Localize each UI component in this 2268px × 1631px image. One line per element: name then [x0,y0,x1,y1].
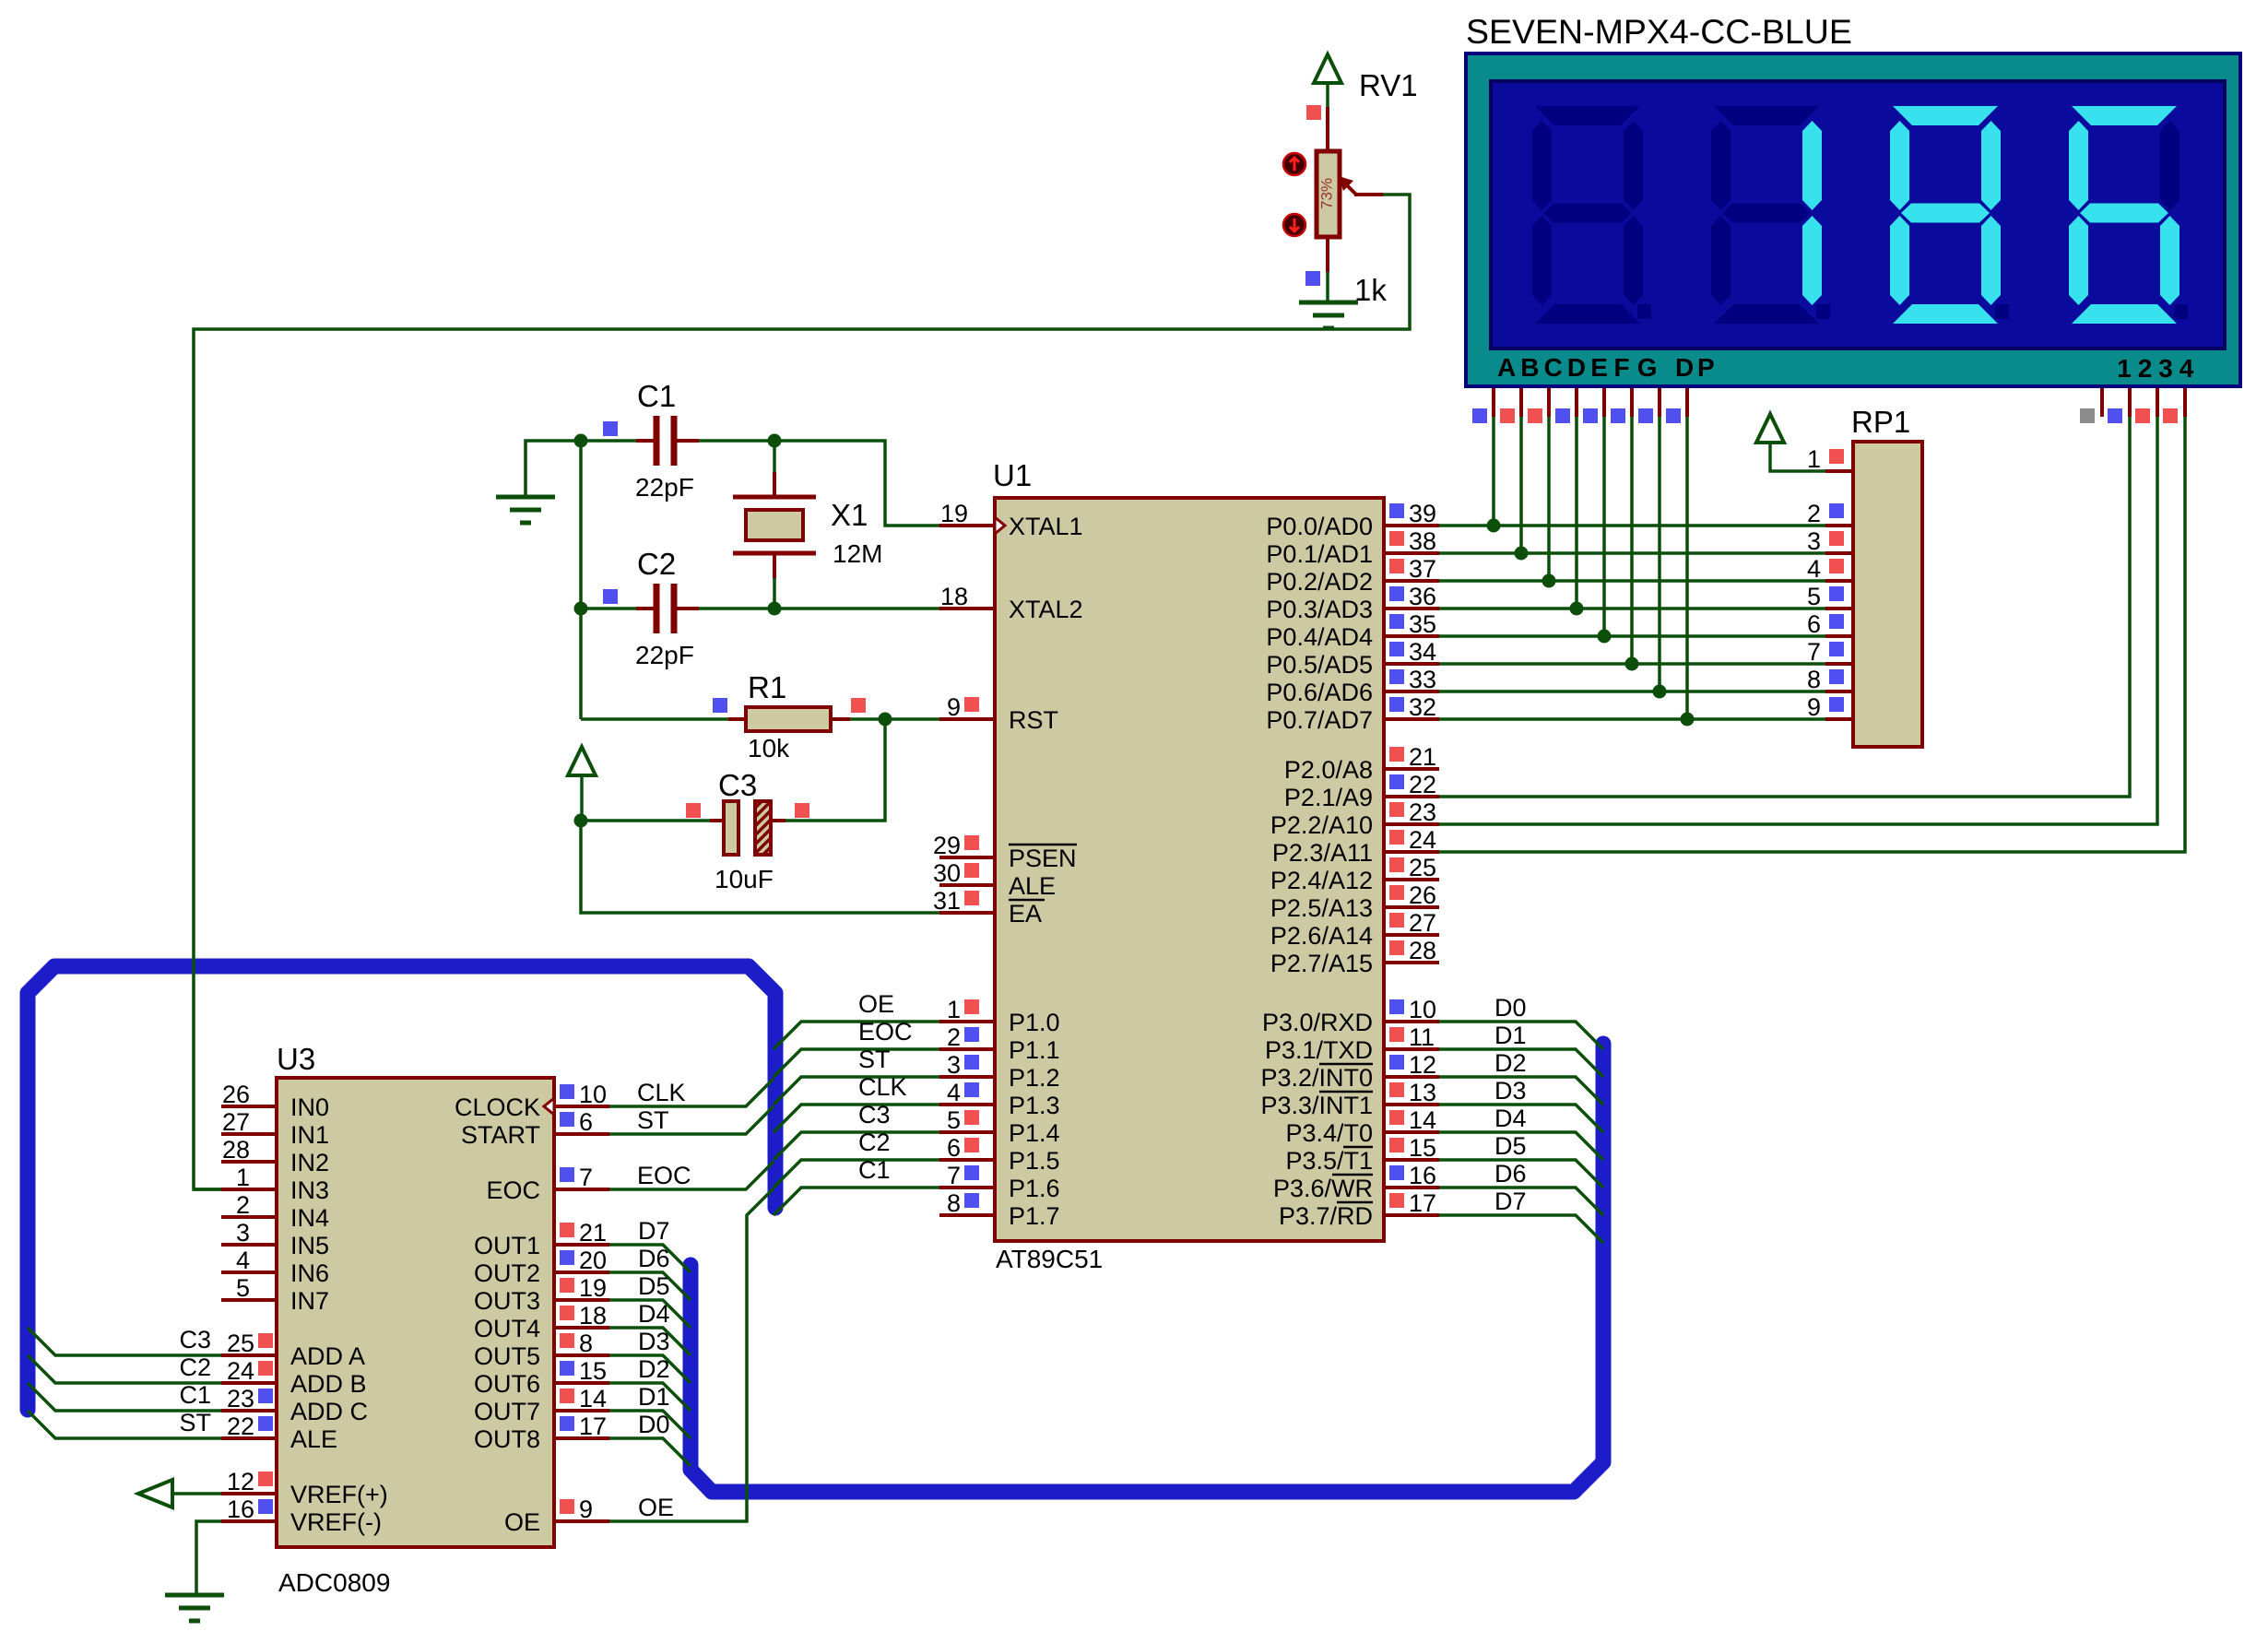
junction [1487,519,1501,533]
svg-text:P2.4/A12: P2.4/A12 [1270,867,1373,894]
svg-text:IN3: IN3 [290,1176,329,1204]
wire P0.0 to display segment / RP1 pin 2 [1439,524,1825,527]
U1 pin 32 P0.7/AD7 [1384,717,1439,721]
wire R1 right to RST junction [831,717,850,721]
svg-text:19: 19 [579,1274,607,1302]
bus data D0-D7 (ADC OUT to 8051 P3) [691,1044,1603,1492]
wire ADC OUT6 net D2 to data bus [609,1383,691,1411]
svg-text:3: 3 [947,1051,961,1079]
svg-text:P1.2: P1.2 [1009,1064,1060,1092]
svg-text:28: 28 [222,1136,250,1164]
U1 pin 13 P3.3/INT1 [1384,1103,1439,1106]
junction [1598,630,1612,644]
display SEVEN-MPX4-CC-BLUE [1466,53,2240,386]
svg-text:IN1: IN1 [290,1121,329,1149]
U1 pin 27 P2.6/A14 [1384,933,1439,937]
wire U1 P1.4 net C3 to bus [774,1132,939,1160]
svg-text:18: 18 [940,583,968,610]
svg-text:D2: D2 [638,1355,670,1383]
wire display pin DP down to P0.7 net [1685,388,1689,417]
svg-text:34: 34 [1409,638,1436,666]
U3 pin 2 IN4 [221,1215,277,1219]
wire display pin B down to P0.1 net [1519,388,1523,417]
svg-text:ADD C: ADD C [290,1398,368,1425]
U1 pin 36 P0.3/AD3 [1384,607,1439,610]
U1 pin 18 XTAL2 [939,607,995,610]
svg-text:10uF: 10uF [715,865,774,893]
wire U1 P3.5 net D5 to data bus [1439,1160,1603,1188]
U1 pin 21 P2.0/A8 [1384,767,1439,771]
svg-text:15: 15 [1409,1134,1436,1162]
svg-text:35: 35 [1409,610,1436,638]
U1 pin 37 P0.2/AD2 [1384,579,1439,583]
svg-text:19: 19 [940,500,968,527]
svg-text:P3.5/T1: P3.5/T1 [1285,1147,1373,1175]
svg-text:D4: D4 [1494,1105,1527,1132]
svg-text:RP1: RP1 [1851,405,1910,439]
wire ADC OUT3 net D5 to data bus [609,1300,691,1328]
svg-text:R1: R1 [748,670,786,704]
U3 pin 16 VREF(-) [221,1519,277,1523]
U3 pin 7 EOC [554,1188,609,1191]
U1 pin 30 ALE [939,883,995,887]
svg-text:OUT1: OUT1 [474,1232,540,1259]
U3 pin 1 IN3 [221,1188,277,1191]
svg-text:OE: OE [638,1494,674,1521]
wire VREF+ arrow to pin 12 [172,1492,221,1495]
svg-text:D0: D0 [638,1411,670,1438]
U1 pin 14 P3.4/T0 [1384,1130,1439,1134]
svg-text:U3: U3 [277,1042,315,1076]
wire display pin G down to P0.6 net [1658,388,1661,417]
wire X1 top stub [773,441,776,472]
svg-text:26: 26 [222,1081,250,1108]
U1 pin 26 P2.5/A13 [1384,905,1439,909]
svg-text:10: 10 [1409,996,1436,1023]
svg-text:EOC: EOC [858,1018,913,1046]
wire P0.7 to display segment / RP1 pin 9 [1439,717,1825,721]
svg-text:AT89C51: AT89C51 [996,1245,1103,1273]
U1 pin 24 P2.3/A11 [1384,850,1439,854]
wire U1 P3.7 net D7 to data bus [1439,1215,1603,1243]
wire display digit pin 1 stub (unconnected) [2100,388,2104,417]
U1 pin 17 P3.7/RD [1384,1213,1439,1217]
wire left bus to ADC net C2 [28,1355,221,1383]
svg-text:CLOCK: CLOCK [455,1093,540,1121]
wire U1 P1.6 net C1 to bus [774,1188,939,1215]
svg-text:8: 8 [947,1189,961,1217]
svg-text:4: 4 [1807,555,1821,583]
U3 pin 14 OUT7 [554,1409,609,1412]
U3 pin 24 ADD B [221,1381,277,1385]
svg-text:OUT6: OUT6 [474,1370,540,1398]
RP1 pin 8 [1825,690,1853,693]
wire display pin C down to P0.2 net [1547,388,1551,417]
U1 pin 7 P1.6 [939,1186,995,1189]
svg-text:OUT8: OUT8 [474,1425,540,1453]
svg-text:D1: D1 [638,1383,670,1411]
svg-text:D5: D5 [638,1272,670,1300]
svg-text:C: C [1544,353,1563,382]
svg-text:21: 21 [1409,743,1436,771]
svg-text:PSEN: PSEN [1009,845,1077,872]
wire ADC OUT7 net D1 to data bus [609,1411,691,1438]
svg-text:5: 5 [1807,583,1821,610]
RP1 pin 4 [1825,579,1853,583]
svg-text:22pF: 22pF [635,473,694,502]
wire U1 P1.1 net EOC to bus [774,1049,939,1077]
wire C3 junction down to EA pin 31 [581,821,939,913]
wire display digit pin 3 to P2.2 [2156,388,2159,417]
U1 pin 28 P2.7/A15 [1384,961,1439,964]
svg-text:P1.7: P1.7 [1009,1202,1060,1230]
wire U1 P3.6 net D6 to data bus [1439,1188,1603,1215]
svg-text:5: 5 [236,1274,250,1302]
wire U1 P1.0 net OE to bus [774,1022,939,1049]
svg-text:U1: U1 [993,458,1032,492]
wire U1 P1.3 net CLK to bus [774,1105,939,1132]
svg-text:37: 37 [1409,555,1436,583]
svg-text:D0: D0 [1494,994,1527,1022]
svg-text:D4: D4 [638,1300,670,1328]
wire display pin F down to P0.5 net [1630,388,1634,417]
svg-text:EOC: EOC [486,1176,540,1204]
U1 pin 3 P1.2 [939,1075,995,1079]
svg-text:ADD A: ADD A [290,1342,365,1370]
U1 pin 8 P1.7 [939,1213,995,1217]
svg-text:8: 8 [579,1330,593,1357]
wire bus to ADC CLK [609,1079,774,1106]
U3 pin 25 ADD A [221,1353,277,1357]
wire left bus to ADC net ST [28,1411,221,1438]
svg-text:X1: X1 [831,498,868,532]
wire C2 left junction to plate [581,607,636,610]
wire U1 P3.0 net D0 to data bus [1439,1022,1603,1049]
power VCC above RV1 [1314,54,1341,83]
svg-text:4: 4 [947,1079,961,1106]
U3 pin 8 OUT5 [554,1353,609,1357]
svg-text:7: 7 [947,1162,961,1189]
U1 pin 19 XTAL1 [939,524,995,527]
svg-text:P2.0/A8: P2.0/A8 [1284,756,1373,784]
RP1 pin 9 [1825,717,1853,721]
svg-text:ALE: ALE [1009,872,1056,900]
svg-text:1: 1 [947,996,961,1023]
svg-text:26: 26 [1409,881,1436,909]
U1 pin 9 RST [939,717,995,721]
wire VCC arrow to RP1 pin 1 [1770,443,1825,471]
svg-text:C1: C1 [637,379,676,413]
svg-text:6: 6 [947,1134,961,1162]
svg-text:38: 38 [1409,527,1436,555]
svg-text:RST: RST [1009,706,1058,734]
wire C3 left [581,819,710,822]
svg-text:22: 22 [227,1412,254,1440]
svg-text:P: P [1697,353,1715,382]
U3 pin 9 OE [554,1519,609,1523]
svg-text:P2.1/A9: P2.1/A9 [1284,784,1373,811]
svg-text:E: E [1590,353,1608,382]
U1 pin 16 P3.6/WR [1384,1186,1439,1189]
svg-text:P1.6: P1.6 [1009,1175,1060,1202]
svg-text:CLK: CLK [858,1073,907,1101]
svg-text:P1.1: P1.1 [1009,1036,1060,1064]
wire ADC OUT4 net D4 to data bus [609,1328,691,1355]
svg-text:24: 24 [1409,826,1436,854]
svg-text:11: 11 [1409,1023,1435,1051]
svg-text:P1.3: P1.3 [1009,1092,1060,1119]
svg-text:14: 14 [579,1385,607,1412]
U3 pin 15 OUT6 [554,1381,609,1385]
svg-text:OUT7: OUT7 [474,1398,540,1425]
svg-text:P3.1/TXD: P3.1/TXD [1265,1036,1373,1064]
U1 pin 31 EA [939,911,995,915]
wire gnd to C1 left [526,441,581,497]
wire P0.6 to display segment / RP1 pin 8 [1439,690,1825,693]
svg-text:XTAL1: XTAL1 [1009,513,1083,540]
wire U1 P3.2 net D2 to data bus [1439,1077,1603,1105]
junction [1570,602,1584,616]
svg-text:9: 9 [947,693,961,721]
wire RV1 wiper to ADC IN3 [1354,193,1383,196]
svg-text:28: 28 [1409,937,1436,964]
svg-text:OUT5: OUT5 [474,1342,540,1370]
svg-text:OUT4: OUT4 [474,1315,540,1342]
svg-text:10: 10 [579,1081,607,1108]
U1 pin 6 P1.5 [939,1158,995,1162]
display pin state squares [1472,408,1487,423]
svg-text:OE: OE [504,1508,540,1536]
U3 pin 22 ALE [221,1436,277,1440]
U1 pin 11 P3.1/TXD [1384,1047,1439,1051]
ic U1 AT89C51 [995,498,1384,1241]
svg-text:17: 17 [579,1412,607,1440]
wire C1 right to X1 top junction [677,439,699,443]
svg-text:29: 29 [933,832,961,859]
svg-text:24: 24 [227,1357,254,1385]
svg-text:12: 12 [1409,1051,1436,1079]
svg-text:C1: C1 [858,1156,891,1184]
U3 pin 21 OUT1 [554,1243,609,1247]
svg-text:5: 5 [947,1106,961,1134]
svg-text:P2.3/A11: P2.3/A11 [1272,839,1373,867]
wire U1 P1.5 net C2 to bus [774,1160,939,1188]
U3 pin 19 OUT3 [554,1298,609,1302]
svg-text:D1: D1 [1494,1022,1527,1049]
svg-text:C2: C2 [858,1129,891,1156]
junction [1681,713,1695,727]
wire U1 P1.2 net ST to bus [774,1077,939,1105]
wire RST junction down to C3 right [786,719,885,821]
svg-text:16: 16 [227,1495,254,1523]
junction [768,434,782,448]
svg-text:OUT2: OUT2 [474,1259,540,1287]
svg-text:EOC: EOC [637,1162,691,1189]
svg-text:ST: ST [858,1046,891,1073]
svg-text:18: 18 [579,1302,607,1330]
svg-text:3: 3 [2158,354,2173,383]
svg-text:2: 2 [236,1191,250,1219]
U3 pin 6 START [554,1132,609,1136]
wire display digit pin 4 to P2.3 [2183,388,2187,417]
svg-text:16: 16 [1409,1162,1436,1189]
svg-text:P0.2/AD2: P0.2/AD2 [1266,568,1373,596]
junction [574,434,588,448]
svg-text:CLK: CLK [637,1079,686,1106]
wire to R1 left [581,717,728,721]
svg-text:ALE: ALE [290,1425,337,1453]
crystal X1 12M [733,497,816,553]
svg-text:D2: D2 [1494,1049,1527,1077]
RV1 adjust buttons [1283,153,1305,175]
wire left bus to ADC net C1 [28,1383,221,1411]
wire bus to ADC ST [609,1106,774,1134]
wire X1 top junction to XTAL1 pin 19 [774,441,939,526]
wire ADC OUT8 net D0 to data bus [609,1438,691,1466]
capacitor C3 10uF [724,801,738,855]
U1 pin 4 P1.3 [939,1103,995,1106]
U3 pin 10 CLOCK [554,1105,609,1108]
junction [879,713,892,727]
svg-text:73%: 73% [1317,178,1335,209]
RP1 pin 7 [1825,662,1853,666]
svg-text:D6: D6 [1494,1160,1527,1188]
svg-text:3: 3 [1807,527,1821,555]
wire display pin D down to P0.3 net [1575,388,1578,417]
svg-text:2: 2 [2138,354,2153,383]
svg-text:P1.4: P1.4 [1009,1119,1060,1147]
ground below RV1 [1299,302,1358,328]
power VCC above C3 [568,747,596,775]
svg-text:P1.5: P1.5 [1009,1147,1060,1175]
junction [574,814,588,828]
wire X1 bottom stub [773,555,776,578]
svg-text:P0.1/AD1: P0.1/AD1 [1266,540,1373,568]
svg-text:IN2: IN2 [290,1149,329,1176]
wire left bus to ADC net C3 [28,1328,221,1355]
svg-text:25: 25 [227,1330,254,1357]
wire P0.4 to display segment / RP1 pin 6 [1439,634,1825,638]
U3 pin 12 VREF(+) [221,1492,277,1495]
svg-text:27: 27 [222,1108,250,1136]
wire ADC IN3 stub lead [194,1188,221,1191]
svg-text:C3: C3 [179,1326,211,1353]
U3 pin 23 ADD C [221,1409,277,1412]
RP1 pin 2 [1825,524,1853,527]
U3 pin 3 IN5 [221,1243,277,1247]
wire VREF- to ground [196,1521,221,1595]
svg-text:XTAL2: XTAL2 [1009,596,1083,623]
RP1 pin 6 [1825,634,1853,638]
svg-text:15: 15 [579,1357,607,1385]
svg-text:IN7: IN7 [290,1287,329,1315]
svg-text:4: 4 [236,1247,250,1274]
svg-text:6: 6 [579,1108,593,1136]
svg-text:EA: EA [1009,900,1042,928]
RP1 pin 1 [1825,469,1853,473]
ground near C1 [496,497,555,523]
U1 pin 34 P0.5/AD5 [1384,662,1439,666]
display digit 1 segments [1532,106,1651,324]
svg-text:START: START [461,1121,540,1149]
svg-text:VREF(-): VREF(-) [290,1508,382,1536]
svg-text:ST: ST [179,1409,211,1436]
U1 pin 22 P2.1/A9 [1384,795,1439,798]
svg-text:10k: 10k [748,734,790,762]
svg-text:D: D [1567,353,1586,382]
svg-text:B: B [1520,353,1539,382]
U1 pin 5 P1.4 [939,1130,995,1134]
svg-text:P0.6/AD6: P0.6/AD6 [1266,679,1373,706]
wire C1-C2-R1 vertical [579,441,583,719]
svg-text:P0.0/AD0: P0.0/AD0 [1266,513,1373,540]
RV1 state squares [1306,105,1321,120]
svg-text:31: 31 [933,887,961,915]
svg-text:3: 3 [236,1219,250,1247]
svg-text:P2.7/A15: P2.7/A15 [1270,950,1373,977]
svg-text:2: 2 [1807,500,1821,527]
svg-text:12: 12 [227,1468,254,1495]
wire C2 right to X1 bottom junction [677,607,699,610]
wire U1 P3.3 net D3 to data bus [1439,1105,1603,1132]
U1 pin 35 P0.4/AD4 [1384,634,1439,638]
potentiometer RV1 [1317,107,1383,302]
svg-text:D6: D6 [638,1245,670,1272]
wire U1 P3.4 net D4 to data bus [1439,1132,1603,1160]
wire U1 P3.1 net D1 to data bus [1439,1049,1603,1077]
capacitor C1 22pF [656,416,674,466]
svg-text:D3: D3 [1494,1077,1527,1105]
junction [1653,685,1667,699]
svg-text:14: 14 [1409,1106,1436,1134]
junction [1515,547,1529,561]
wire bus to ADC OE [609,1188,774,1521]
svg-text:IN5: IN5 [290,1232,329,1259]
svg-text:C1: C1 [179,1381,211,1409]
U1 pin 25 P2.4/A12 [1384,878,1439,881]
svg-text:27: 27 [1409,909,1436,937]
svg-text:ADC0809: ADC0809 [278,1568,390,1597]
junction [1542,574,1556,588]
capacitor C2 22pF [656,584,674,633]
svg-text:P2.2/A10: P2.2/A10 [1270,811,1373,839]
svg-text:20: 20 [579,1247,607,1274]
svg-text:P0.4/AD4: P0.4/AD4 [1266,623,1373,651]
svg-text:4: 4 [2179,354,2194,383]
svg-text:RV1: RV1 [1359,68,1418,102]
RP1 pin 3 [1825,551,1853,555]
svg-text:IN0: IN0 [290,1093,329,1121]
svg-text:39: 39 [1409,500,1436,527]
wire display pin A down to P0.0 net [1492,388,1495,417]
U3 pin 17 OUT8 [554,1436,609,1440]
svg-text:30: 30 [933,859,961,887]
wire display digit pin 2 to P2.1 [2128,388,2132,417]
U1 pin 39 P0.0/AD0 [1384,524,1439,527]
svg-text:IN4: IN4 [290,1204,329,1232]
U3 pin 26 IN0 [221,1105,277,1108]
respack RP1 [1853,442,1922,747]
power VREF+ left arrow [138,1480,172,1507]
resistor R1 10k [746,707,831,731]
svg-text:21: 21 [579,1219,607,1247]
U3 pin 4 IN6 [221,1271,277,1274]
U1 pin 10 P3.0/RXD [1384,1020,1439,1023]
svg-text:P2.6/A14: P2.6/A14 [1270,922,1373,950]
svg-text:SEVEN-MPX4-CC-BLUE: SEVEN-MPX4-CC-BLUE [1466,12,1852,51]
svg-text:1k: 1k [1354,273,1387,307]
junction [574,602,588,616]
